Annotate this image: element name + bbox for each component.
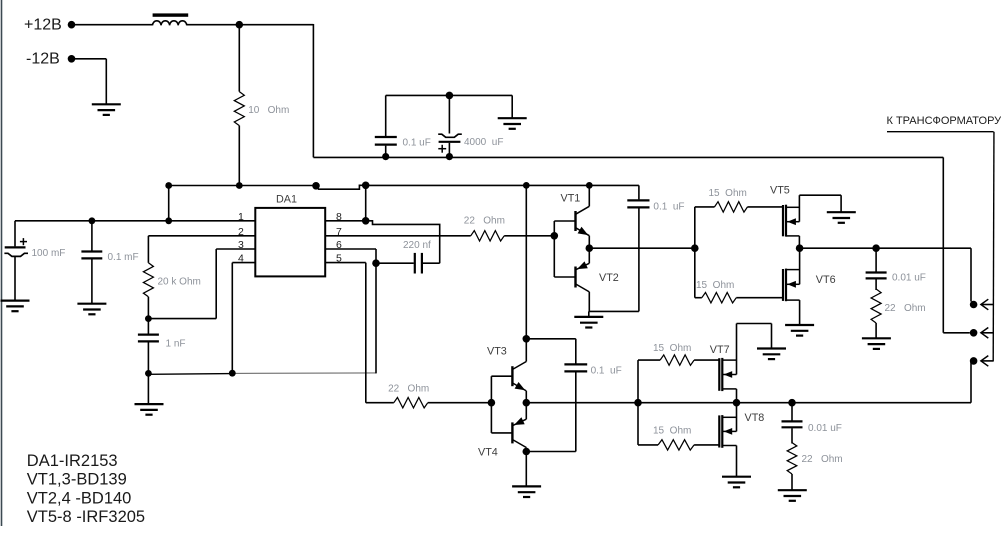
capacitor C1 0.1 uF bulk bbox=[375, 95, 397, 157]
svg-text:DA1: DA1 bbox=[276, 193, 297, 205]
svg-text:10 Ohm: 10 Ohm bbox=[248, 105, 289, 116]
resistor R3 22 Ohm bbox=[471, 231, 555, 241]
svg-text:22 Ohm: 22 Ohm bbox=[388, 383, 429, 394]
svg-text:VT2,4 -BD140: VT2,4 -BD140 bbox=[27, 489, 132, 507]
inductor L1 bbox=[153, 13, 189, 25]
wire pin1 rail bbox=[15, 220, 255, 222]
value label 15 Ohm R5 bbox=[696, 280, 734, 291]
svg-text:220 nf: 220 nf bbox=[403, 240, 431, 251]
transistor Q8 VT8 bbox=[719, 403, 736, 477]
label K TRANSFORMATORU bbox=[887, 115, 1001, 127]
ground VT7 drain bbox=[757, 349, 786, 360]
node pin8 bbox=[362, 217, 370, 225]
node A junction bbox=[236, 21, 244, 29]
pin 1 number bbox=[238, 211, 244, 223]
pin 4 number bbox=[238, 253, 244, 265]
svg-text:1 nF: 1 nF bbox=[166, 339, 186, 350]
value label 0.1 uF bulk bbox=[403, 137, 431, 148]
wire pin8 node to bus bbox=[365, 185, 367, 221]
pin 3 number bbox=[238, 239, 244, 251]
wire pin 7 stub bbox=[325, 235, 471, 237]
node connector 3 bbox=[970, 357, 978, 365]
svg-text:+12В: +12В bbox=[24, 17, 62, 34]
node pin6-C6 tap bbox=[372, 259, 380, 267]
value label 100 mF bbox=[32, 248, 66, 259]
svg-text:VT5-8 -IRF3205: VT5-8 -IRF3205 bbox=[27, 508, 145, 526]
svg-text:VT3: VT3 bbox=[487, 345, 507, 357]
svg-text:1: 1 bbox=[238, 211, 244, 223]
node -12V terminal bbox=[68, 55, 76, 63]
node +12V terminal bbox=[68, 21, 76, 29]
node gate rail VT56 bbox=[691, 244, 699, 252]
capacitor C4 100 mF bbox=[4, 221, 28, 300]
resistor R4 15 Ohm bbox=[695, 202, 783, 212]
value label 0.1 mF bbox=[108, 252, 139, 263]
node snubber VT78 bbox=[788, 399, 796, 407]
wire pin 6 stub bbox=[325, 248, 376, 250]
resistor R8 15 Ohm bbox=[638, 355, 719, 365]
node bus-VT3 bbox=[523, 182, 530, 189]
node connector 2 bbox=[970, 329, 978, 337]
label DA1 bbox=[276, 193, 297, 205]
value label 22 Ohm R7 bbox=[388, 383, 429, 394]
pin 2 number bbox=[238, 226, 244, 238]
node pin4 tap bbox=[229, 370, 236, 377]
node VT78 output bbox=[733, 399, 741, 407]
svg-text:0.1 uF: 0.1 uF bbox=[403, 137, 431, 148]
value label 220 nf bbox=[403, 240, 431, 251]
wire pin 8 stub bbox=[325, 220, 366, 222]
svg-text:15 Ohm: 15 Ohm bbox=[653, 343, 691, 354]
svg-text:VT7: VT7 bbox=[710, 344, 730, 356]
node C1 on +12 rail bbox=[382, 153, 389, 160]
pin 6 number bbox=[336, 239, 342, 251]
capacitor C7 0.1 uF bbox=[627, 185, 649, 311]
svg-text:VT2: VT2 bbox=[599, 272, 619, 284]
node C3 tap bbox=[89, 217, 96, 224]
value label 0.1 uF C7 bbox=[653, 201, 684, 212]
wire pin 3 stub bbox=[216, 248, 255, 250]
node bus-R1 bbox=[236, 182, 243, 189]
node link tap bbox=[165, 217, 172, 224]
value label 0.01 uF C10 bbox=[808, 423, 842, 434]
transistor Q2 VT2 bbox=[554, 248, 589, 311]
svg-text:100 mF: 100 mF bbox=[32, 248, 66, 259]
svg-text:0.01 uF: 0.01 uF bbox=[808, 423, 842, 434]
wire bus to pin1 rail link bbox=[168, 186, 170, 221]
wire pin 4 drop bbox=[231, 263, 233, 374]
node connector 1 bbox=[970, 301, 978, 309]
value label 22 Ohm R6 bbox=[885, 303, 926, 314]
ground -12V input bbox=[92, 104, 121, 115]
label VT2 bbox=[599, 272, 619, 284]
wire +12V to inductor bbox=[75, 24, 153, 26]
value label 10 Ohm bbox=[248, 105, 289, 116]
ground VT2 bbox=[574, 311, 603, 327]
value label 15 Ohm R9 bbox=[653, 425, 691, 436]
svg-text:4000 uF: 4000 uF bbox=[464, 137, 503, 148]
svg-text:22 Ohm: 22 Ohm bbox=[885, 303, 926, 314]
wire pin 5 drop bbox=[365, 263, 367, 403]
pin 5 number bbox=[336, 253, 342, 265]
resistor R2 20 k Ohm bbox=[143, 236, 153, 319]
label VT1 bbox=[561, 193, 581, 205]
resistor R7 22 Ohm bbox=[366, 398, 492, 408]
connector arrow 2 bbox=[981, 328, 994, 339]
resistor R1 10 Ohm bbox=[234, 25, 244, 186]
wire inductor to node A bbox=[187, 24, 240, 26]
wire VT56 output bbox=[800, 247, 971, 249]
capacitor C9 0.1 uF bbox=[564, 339, 587, 452]
wire C6 to pin8 node bbox=[366, 221, 440, 263]
wire gate rail VT56 bbox=[694, 207, 696, 298]
node bus-pin8 bbox=[362, 182, 370, 190]
connector arrow 3 bbox=[981, 356, 994, 367]
svg-text:15 Ohm: 15 Ohm bbox=[709, 188, 747, 199]
transistor Q7 VT7 bbox=[719, 324, 771, 403]
svg-text:22 Ohm: 22 Ohm bbox=[464, 216, 505, 227]
resistor R9 15 Ohm bbox=[638, 440, 719, 450]
node COM-left bbox=[145, 370, 152, 377]
value label 22 Ohm R10 bbox=[802, 454, 843, 465]
svg-text:DA1-IR2153: DA1-IR2153 bbox=[27, 452, 118, 470]
node VT34 base rail bbox=[488, 399, 496, 407]
svg-text:15 Ohm: 15 Ohm bbox=[653, 425, 691, 436]
ground COM bbox=[135, 373, 164, 414]
resistor R5 15 Ohm bbox=[695, 293, 783, 303]
wire pin 3 link bbox=[148, 249, 216, 319]
node gate rail VT78 bbox=[634, 399, 642, 407]
connector arrow 1 bbox=[981, 299, 994, 310]
wire node A to right corner bbox=[239, 24, 313, 157]
value label 0.1 uF C9 bbox=[591, 366, 622, 377]
transistor Q6 VT6 bbox=[783, 248, 800, 324]
label parts list line 2 bbox=[27, 471, 127, 489]
wire COM rail bbox=[148, 373, 376, 374]
node bus-left bbox=[165, 182, 172, 189]
ground snubber VT56 bbox=[862, 338, 891, 349]
svg-text:0.1 mF: 0.1 mF bbox=[108, 252, 139, 263]
label parts list line 4 bbox=[27, 508, 145, 526]
capacitor C10 0.01 uF bbox=[782, 403, 803, 444]
wire connector bus bbox=[992, 132, 995, 361]
node VT56 output bbox=[796, 244, 804, 252]
svg-text:0.1 uF: 0.1 uF bbox=[653, 201, 684, 212]
node VT3 collector top bbox=[523, 335, 531, 343]
net +12V label bbox=[24, 17, 62, 34]
svg-text:VT1,3-BD139: VT1,3-BD139 bbox=[27, 471, 127, 489]
svg-text:20 k Ohm: 20 k Ohm bbox=[158, 277, 201, 288]
wire pin 6 drop bbox=[375, 249, 377, 373]
polarity label + C4 bbox=[20, 238, 27, 245]
value label 1 nF bbox=[166, 339, 186, 350]
resistor R6 22 Ohm bbox=[871, 289, 881, 338]
value label 15 Ohm R4 bbox=[709, 188, 747, 199]
wire -12V to ground bbox=[75, 59, 106, 105]
op-amp U1 DA1 IR2153 box bbox=[255, 208, 325, 277]
node bus-VT1 bbox=[586, 182, 593, 189]
value label 20 k Ohm bbox=[158, 277, 201, 288]
capacitor C8 0.01 uF bbox=[866, 248, 887, 290]
node VT12 output bbox=[586, 244, 594, 252]
svg-text:22 Ohm: 22 Ohm bbox=[802, 454, 843, 465]
resistor R10 22 Ohm bbox=[787, 443, 797, 491]
pin 7 number bbox=[336, 226, 342, 238]
svg-text:VT8: VT8 bbox=[745, 412, 765, 424]
border frame left edge bbox=[1, 0, 3, 526]
svg-text:К ТРАНСФОРМАТОРУ: К ТРАНСФОРМАТОРУ bbox=[887, 115, 1001, 127]
svg-text:-12В: -12В bbox=[26, 51, 60, 68]
node bulk cap top bbox=[446, 92, 454, 100]
node bus-step bbox=[312, 182, 320, 190]
node snubber VT56 bbox=[872, 244, 880, 252]
ground VT6 source bbox=[785, 325, 814, 336]
ground VT5 drain bbox=[827, 212, 856, 223]
label VT7 bbox=[710, 344, 730, 356]
capacitor C5 1 nF bbox=[138, 319, 159, 374]
ground C3 bbox=[77, 304, 106, 315]
svg-text:0.1 uF: 0.1 uF bbox=[591, 366, 622, 377]
wire +12V rail bbox=[313, 156, 943, 158]
wire VT12 base rail bbox=[553, 221, 555, 277]
wire VT4 to cap bottom bbox=[526, 451, 576, 453]
label VT3 bbox=[487, 345, 507, 357]
transistor Q5 VT5 bbox=[783, 195, 841, 248]
node VT4 collector bbox=[523, 448, 531, 456]
wire VT12 output bbox=[589, 247, 695, 249]
node VT12 base rail bbox=[551, 232, 559, 240]
transistor Q1 VT1 bbox=[554, 185, 589, 248]
svg-text:VT1: VT1 bbox=[561, 193, 581, 205]
wire VT34 output bbox=[526, 361, 971, 403]
wire VT34 base rail bbox=[490, 376, 492, 433]
label parts list line 3 bbox=[27, 489, 132, 507]
svg-text:VT6: VT6 bbox=[816, 274, 836, 286]
svg-text:VT5: VT5 bbox=[770, 184, 790, 196]
wire +12 rail to connector bbox=[943, 157, 970, 332]
wire VCC bus bbox=[169, 185, 639, 189]
pin 8 number bbox=[336, 211, 342, 223]
wire pin 2 stub bbox=[148, 235, 255, 237]
capacitor C6 220 nf bbox=[376, 253, 440, 274]
label VT6 bbox=[816, 274, 836, 286]
polarity label + C2 bbox=[438, 145, 446, 153]
wire bulk cap top rail bbox=[386, 94, 513, 96]
ground bulk caps bbox=[498, 95, 527, 128]
wire gate rail VT78 bbox=[637, 360, 639, 445]
wire bus to VT3 bbox=[525, 185, 527, 338]
label VT4 bbox=[478, 447, 498, 459]
ground snubber VT78 bbox=[778, 490, 807, 501]
capacitor C3 0.1 mF bbox=[81, 221, 102, 303]
node C2 on +12 rail bbox=[446, 153, 453, 160]
ground VT8 source bbox=[722, 477, 751, 488]
svg-text:VT4: VT4 bbox=[478, 447, 498, 459]
value label 22 Ohm R3 bbox=[464, 216, 505, 227]
svg-text:15 Ohm: 15 Ohm bbox=[696, 280, 734, 291]
ground VT4 bbox=[512, 452, 541, 498]
node VT34 output bbox=[523, 399, 531, 407]
net -12V label bbox=[26, 51, 60, 68]
capacitor C2 4000 uF bbox=[438, 95, 462, 157]
wire VT2 collector to cap bbox=[589, 310, 639, 312]
transistor Q4 VT4 bbox=[491, 403, 526, 452]
wire pin 5 stub bbox=[325, 262, 366, 264]
value label 0.01 uF C8 bbox=[892, 272, 926, 283]
label VT5 bbox=[770, 184, 790, 196]
wire pin 4 stub bbox=[232, 262, 255, 264]
svg-text:0.01 uF: 0.01 uF bbox=[892, 272, 926, 283]
wire VT3 top to cap bbox=[526, 338, 576, 340]
label underline bbox=[887, 131, 994, 133]
node R2-C5 bbox=[145, 315, 152, 322]
transistor Q3 VT3 bbox=[491, 339, 526, 403]
label parts list line 1 bbox=[27, 452, 118, 470]
label VT8 bbox=[745, 412, 765, 424]
ground C4 bbox=[1, 301, 30, 312]
wire output1 to connector bbox=[971, 248, 973, 304]
value label 15 Ohm R8 bbox=[653, 343, 691, 354]
value label 4000 uF bbox=[464, 137, 503, 148]
